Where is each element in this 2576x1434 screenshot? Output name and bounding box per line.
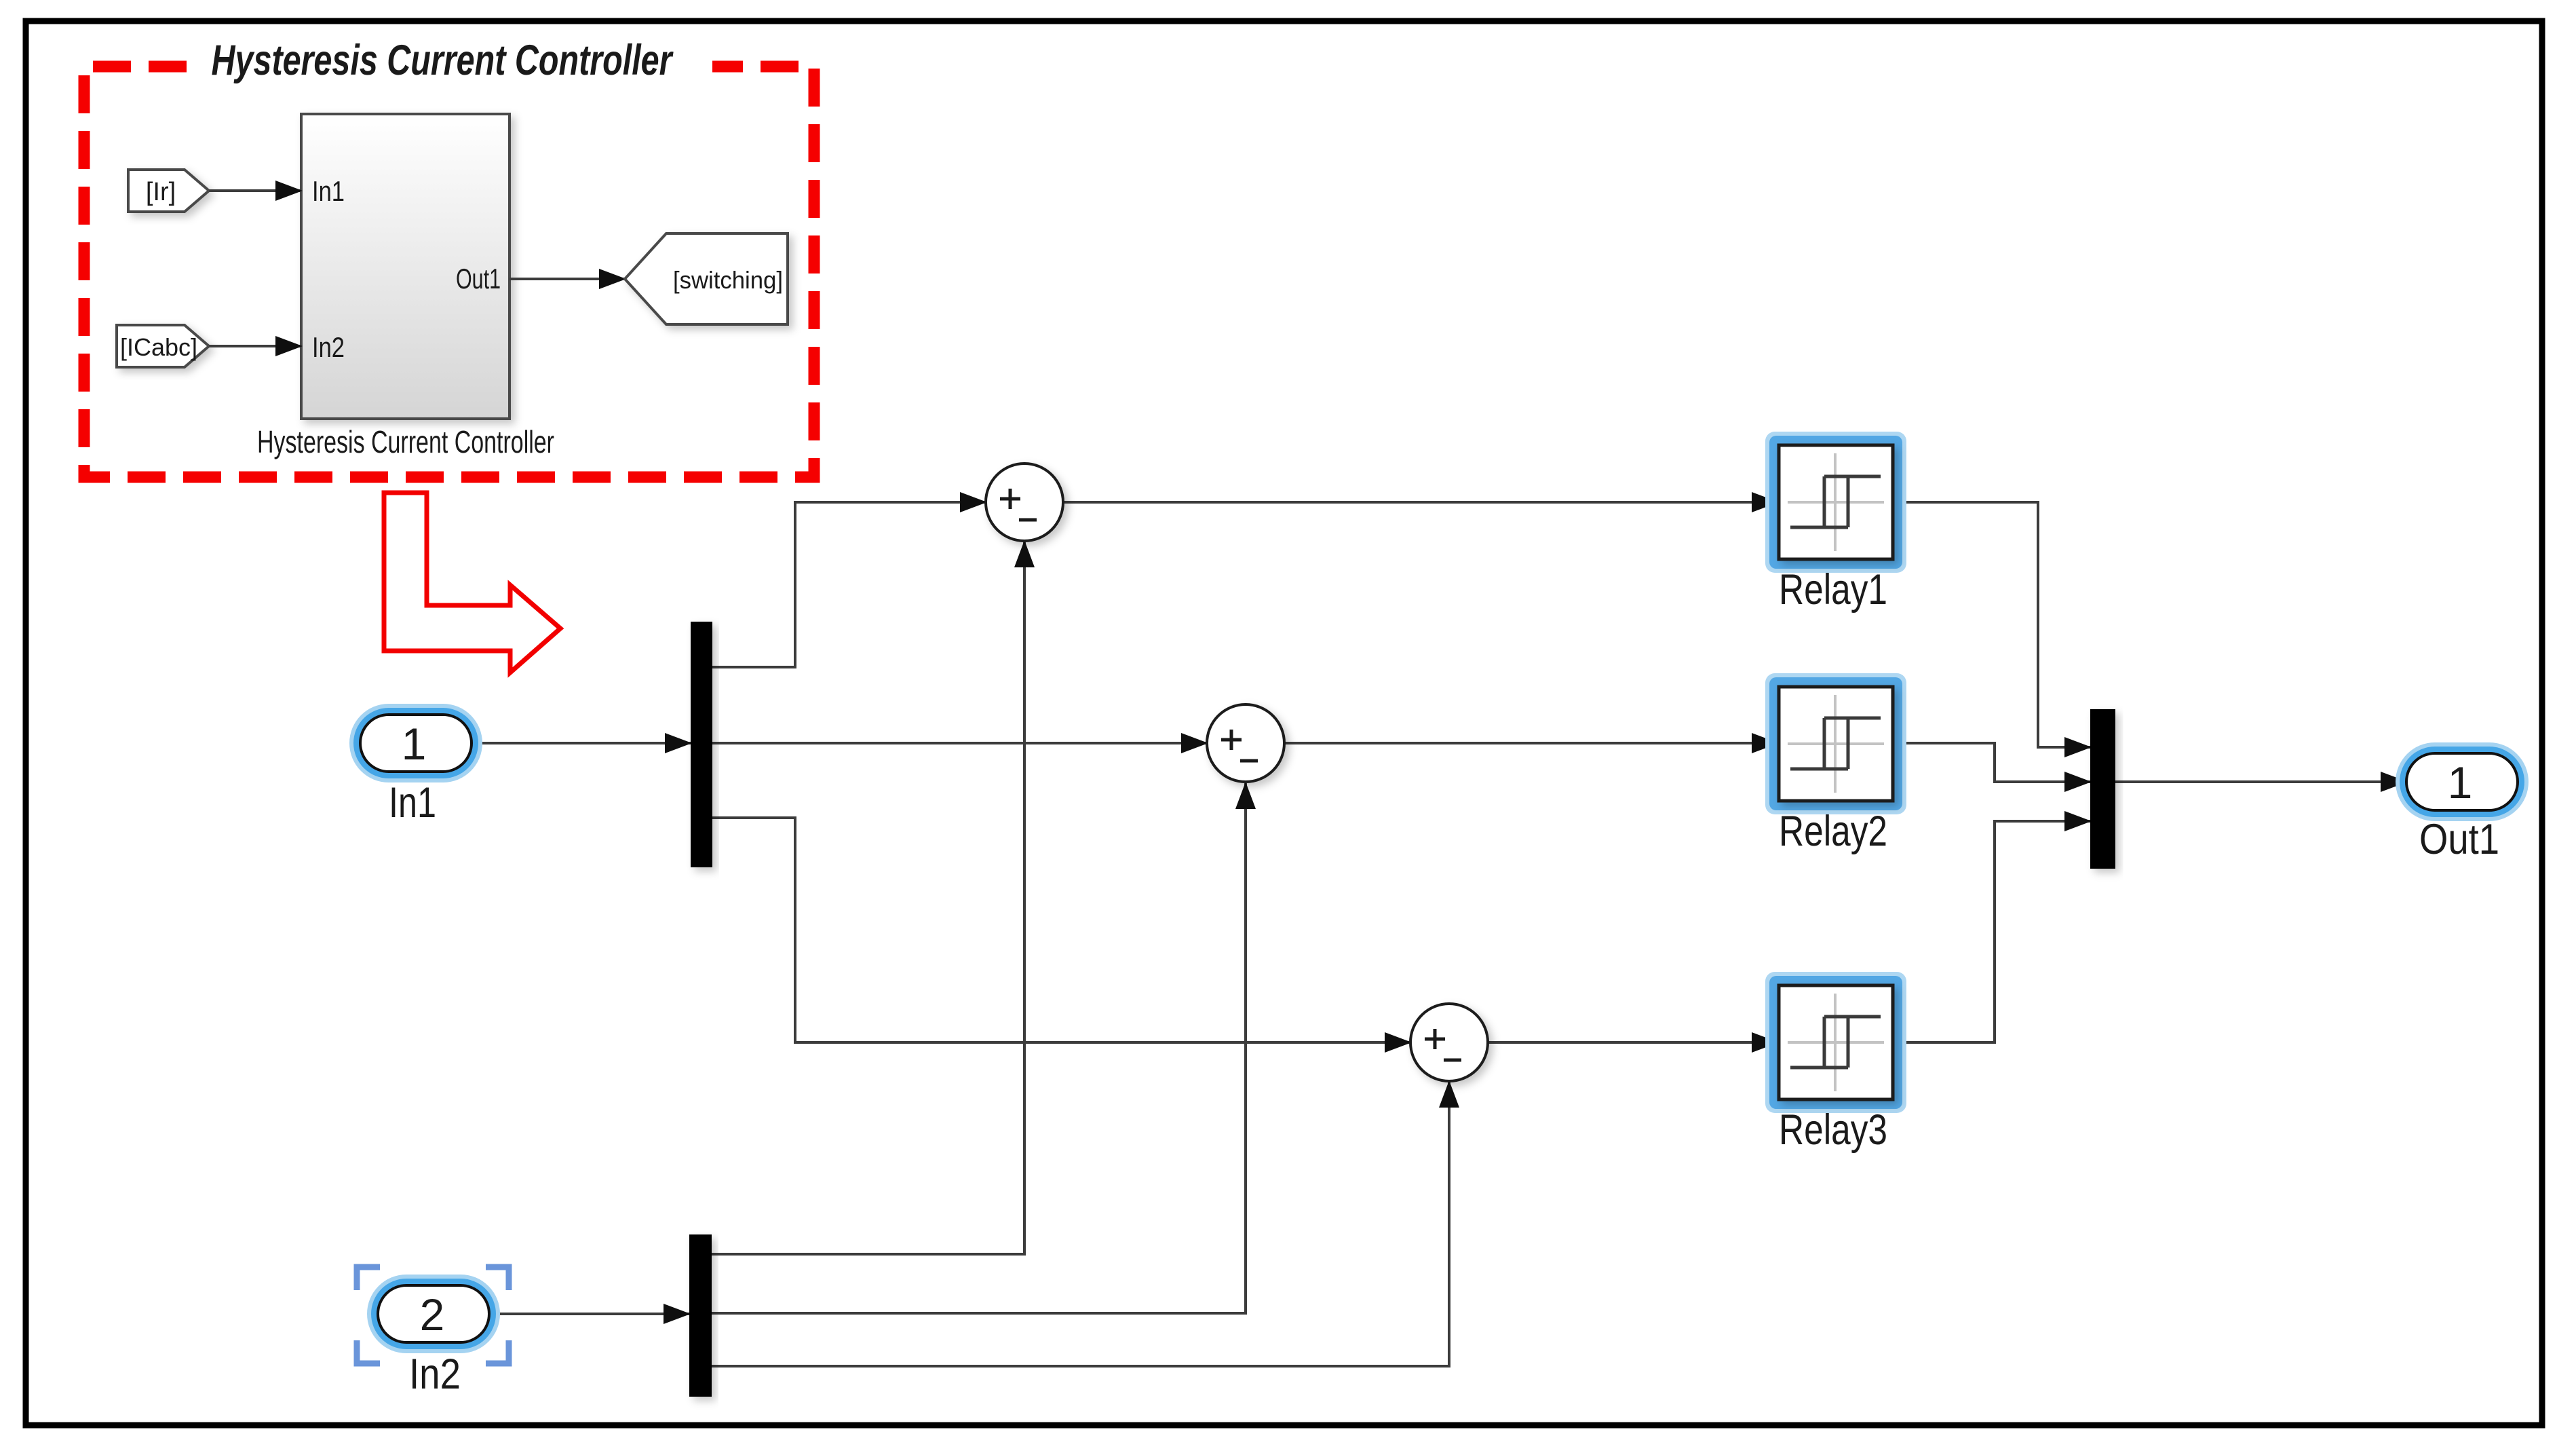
svg-text:1: 1 <box>402 719 427 769</box>
svg-text:[Ir]: [Ir] <box>146 178 176 206</box>
svg-text:Out1: Out1 <box>456 263 501 295</box>
svg-text:Out1: Out1 <box>2419 816 2499 863</box>
svg-text:Hysteresis Current Controller: Hysteresis Current Controller <box>257 424 554 459</box>
svg-text:In2: In2 <box>409 1351 461 1398</box>
svg-text:Relay2: Relay2 <box>1779 808 1887 855</box>
svg-text:Hysteresis Current Controller: Hysteresis Current Controller <box>212 37 674 84</box>
svg-text:2: 2 <box>420 1289 445 1340</box>
svg-text:[ICabc]: [ICabc] <box>120 333 197 361</box>
svg-text:[switching]: [switching] <box>673 266 783 294</box>
svg-text:In1: In1 <box>312 175 345 207</box>
svg-text:In2: In2 <box>312 331 345 363</box>
svg-text:In1: In1 <box>389 779 436 827</box>
svg-text:Relay3: Relay3 <box>1779 1106 1887 1154</box>
svg-text:1: 1 <box>2448 757 2473 808</box>
svg-text:Relay1: Relay1 <box>1779 566 1887 614</box>
